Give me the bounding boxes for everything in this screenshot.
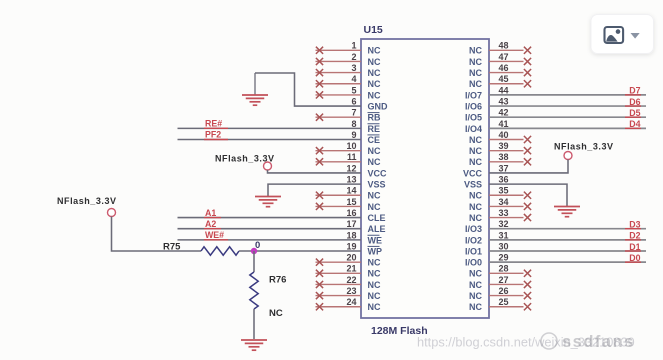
svg-text:19: 19 [346, 241, 356, 251]
svg-text:PF2: PF2 [205, 130, 221, 140]
svg-text:36: 36 [499, 175, 509, 185]
pin 41 (I/O4) right stub [465, 119, 509, 134]
svg-text:NC: NC [368, 79, 381, 89]
svg-text:GND: GND [368, 101, 389, 111]
pin 44 (I/O7) right stub [465, 85, 509, 100]
svg-text:NC: NC [469, 146, 482, 156]
value NC (R76) [269, 308, 283, 319]
wire NFlash_3.3V down to R75 [112, 217, 202, 252]
wire R75 to pin 19 (WP) [239, 250, 361, 252]
svg-text:NC: NC [368, 280, 381, 290]
svg-text:NC: NC [368, 46, 381, 56]
net label D6 [625, 97, 641, 107]
pin 39 (NC) right stub [469, 141, 531, 156]
svg-text:41: 41 [499, 119, 509, 129]
svg-text:NFlash_3.3V: NFlash_3.3V [57, 196, 117, 206]
pin 25 (NC) right stub [469, 297, 531, 312]
pin 13 (VSS) left stub [346, 175, 385, 190]
svg-text:16: 16 [346, 208, 356, 218]
svg-text:NC: NC [368, 258, 381, 268]
pin 17 (ALE) left stub [346, 219, 385, 234]
net label D0 [625, 253, 641, 263]
wire D6 (pin 43 to right edge) [489, 105, 646, 107]
svg-text:I/O3: I/O3 [465, 224, 482, 234]
svg-text:RE: RE [368, 124, 381, 134]
label R76 [269, 275, 286, 286]
pin 33 (NC) right stub [469, 208, 531, 223]
pin 24 (NC) left stub [316, 297, 381, 312]
pin 2 (NC) left stub [316, 52, 381, 67]
power port NFlash_3.3V (left) [57, 196, 117, 217]
svg-text:U15: U15 [364, 24, 383, 36]
svg-text:NC: NC [368, 291, 381, 301]
svg-text:I/O5: I/O5 [465, 113, 482, 123]
net label PF2 [204, 130, 228, 140]
value label 128M Flash [371, 325, 428, 337]
svg-text:NC: NC [469, 291, 482, 301]
svg-text:9: 9 [351, 130, 356, 140]
svg-text:39: 39 [499, 141, 509, 151]
pin 38 (NC) right stub [469, 152, 531, 167]
pin 34 (NC) right stub [469, 197, 531, 212]
svg-text:NC: NC [368, 269, 381, 279]
wire D1 (pin 30 to right edge) [489, 250, 646, 252]
pin 21 (NC) left stub [316, 264, 381, 279]
svg-text:NC: NC [469, 157, 482, 167]
svg-text:RB: RB [368, 113, 381, 123]
wire PF2 to pin 9 [178, 139, 362, 141]
watermark URL text [417, 335, 635, 350]
svg-text:NC: NC [368, 191, 381, 201]
wire NFlash_3.3V to pin 37 (VCC) [489, 160, 568, 173]
svg-text:3: 3 [351, 63, 356, 73]
net label D7 [625, 86, 641, 96]
svg-text:I/O6: I/O6 [465, 101, 482, 111]
wire junction down to R76 [253, 251, 255, 272]
pin 42 (I/O5) right stub [465, 108, 509, 123]
wire NFlash_3.3V to pin 12 (VCC) [268, 170, 362, 173]
wire D7 (pin 44 to right edge) [489, 94, 646, 96]
wire WE# to pin 18 [178, 239, 362, 241]
pin 22 (NC) left stub [316, 275, 381, 290]
svg-text:NC: NC [469, 68, 482, 78]
pin 8 (RE) left stub [351, 119, 380, 134]
svg-text:NC: NC [469, 302, 482, 312]
pin 7 (RB) left stub [316, 108, 381, 123]
svg-text:NC: NC [269, 308, 283, 319]
pin 35 (NC) right stub [469, 186, 531, 201]
svg-text:13: 13 [346, 175, 356, 185]
svg-text:6: 6 [351, 96, 356, 106]
wire D5 (pin 42 to right edge) [489, 116, 646, 118]
svg-text:34: 34 [499, 197, 509, 207]
svg-text:NC: NC [368, 90, 381, 100]
svg-text:A1: A1 [205, 208, 216, 218]
svg-text:ssdfans: ssdfans [562, 333, 635, 351]
svg-text:NC: NC [469, 213, 482, 223]
pin 37 (VCC) right stub [463, 163, 509, 178]
svg-text:37: 37 [499, 163, 509, 173]
label R75 [163, 242, 181, 253]
value 0 (R75) [255, 240, 260, 251]
svg-text:11: 11 [347, 152, 357, 162]
svg-text:10: 10 [346, 141, 356, 151]
pin 47 (NC) right stub [469, 52, 531, 67]
pin 45 (NC) right stub [469, 74, 531, 89]
svg-text:NC: NC [469, 202, 482, 212]
wire D4 (pin 41 to right edge) [489, 127, 646, 129]
svg-text:8: 8 [351, 119, 356, 129]
pin 23 (NC) left stub [316, 286, 381, 301]
pin 29 (I/O0) right stub [465, 253, 509, 268]
net label D5 [625, 108, 641, 118]
svg-text:D2: D2 [629, 231, 640, 241]
svg-text:NC: NC [368, 202, 381, 212]
svg-text:32: 32 [499, 219, 509, 229]
pin 18 (WE) left stub [346, 230, 382, 245]
pin 20 (NC) left stub [316, 253, 381, 268]
svg-text:RE#: RE# [205, 119, 222, 129]
svg-text:I/O2: I/O2 [465, 235, 482, 245]
svg-text:ALE: ALE [368, 224, 386, 234]
ground symbol (right, pin 36) [554, 207, 580, 217]
svg-text:WE#: WE# [205, 230, 224, 240]
pin 3 (NC) left stub [316, 63, 381, 78]
ground symbol (middle, pin 13) [255, 197, 281, 207]
net label D2 [625, 231, 641, 241]
power port NFlash_3.3V (right) [554, 142, 614, 160]
pin 30 (I/O1) right stub [465, 241, 509, 256]
IC U15 body (128M Flash) [361, 39, 489, 318]
pin 16 (CLE) left stub [346, 208, 385, 223]
svg-text:D4: D4 [629, 119, 640, 129]
junction node (magenta) [251, 248, 257, 254]
svg-text:VSS: VSS [464, 180, 482, 190]
pin 9 (CE) left stub [351, 130, 380, 145]
wire D0 (pin 29 to right edge) [489, 261, 646, 263]
wire pin 13 (VSS) to ground [268, 184, 361, 196]
svg-text:NC: NC [469, 46, 482, 56]
pin 31 (I/O2) right stub [465, 230, 509, 245]
net label A1 [204, 208, 221, 218]
svg-text:17: 17 [346, 219, 356, 229]
wire R76 to ground [253, 309, 255, 339]
svg-text:A2: A2 [205, 219, 216, 229]
ground symbol (top, pin 6) [242, 73, 268, 105]
svg-text:31: 31 [499, 230, 509, 240]
svg-text:25: 25 [499, 297, 509, 307]
resistor R76 [250, 272, 258, 309]
svg-text:NC: NC [469, 280, 482, 290]
svg-text:7: 7 [351, 108, 356, 118]
svg-text:30: 30 [499, 241, 509, 251]
pin 10 (NC) left stub [316, 141, 381, 156]
wire A2 to pin 17 [178, 228, 362, 230]
svg-text:26: 26 [499, 286, 509, 296]
net label A2 [204, 219, 221, 229]
svg-text:R76: R76 [269, 275, 286, 286]
svg-text:CE: CE [368, 135, 381, 145]
svg-text:I/O7: I/O7 [465, 90, 482, 100]
svg-text:21: 21 [346, 264, 356, 274]
svg-text:NC: NC [368, 302, 381, 312]
svg-text:NC: NC [368, 57, 381, 67]
svg-text:42: 42 [499, 108, 509, 118]
designator U15 [364, 24, 383, 36]
svg-text:48: 48 [499, 41, 509, 51]
power port NFlash_3.3V (middle) [215, 154, 275, 171]
svg-text:18: 18 [346, 230, 356, 240]
wire ground to pin 6 (GND) [255, 73, 361, 106]
svg-text:1: 1 [351, 41, 356, 51]
svg-text:I/O4: I/O4 [465, 124, 482, 134]
svg-text:33: 33 [499, 208, 509, 218]
svg-text:NC: NC [368, 68, 381, 78]
svg-text:NC: NC [469, 135, 482, 145]
svg-text:5: 5 [351, 85, 356, 95]
net label WE# [204, 230, 228, 240]
wire RE# to pin 8 [178, 127, 362, 129]
svg-text:D7: D7 [629, 86, 640, 96]
net label D1 [625, 242, 641, 252]
svg-text:23: 23 [346, 286, 356, 296]
wire D2 (pin 31 to right edge) [489, 239, 646, 241]
pin 6 (GND) left stub [351, 96, 388, 111]
pin 43 (I/O6) right stub [465, 96, 509, 111]
wire A1 to pin 16 [178, 217, 362, 219]
svg-text:CLE: CLE [368, 213, 386, 223]
watermark ssdfans overlay [541, 333, 635, 351]
svg-text:22: 22 [346, 275, 356, 285]
svg-text:NC: NC [469, 57, 482, 67]
svg-text:40: 40 [499, 130, 509, 140]
svg-text:47: 47 [499, 52, 509, 62]
svg-text:20: 20 [346, 253, 356, 263]
pin 40 (NC) right stub [469, 130, 531, 145]
svg-text:NC: NC [469, 79, 482, 89]
net label RE# [204, 119, 228, 129]
svg-text:15: 15 [346, 197, 356, 207]
svg-text:2: 2 [351, 52, 356, 62]
pin 27 (NC) right stub [469, 275, 531, 290]
resistor R75 [201, 247, 239, 255]
pin 36 (VSS) right stub [464, 175, 509, 190]
svg-text:44: 44 [499, 85, 509, 95]
svg-text:R75: R75 [163, 242, 181, 253]
pin 4 (NC) left stub [316, 74, 381, 89]
pin 19 (WP) left stub [346, 241, 382, 256]
svg-text:NC: NC [368, 157, 381, 167]
svg-text:43: 43 [499, 96, 509, 106]
pin 48 (NC) right stub [469, 41, 531, 56]
svg-text:VSS: VSS [368, 180, 386, 190]
svg-text:4: 4 [351, 74, 356, 84]
svg-text:I/O1: I/O1 [465, 246, 482, 256]
svg-text:I/O0: I/O0 [465, 258, 482, 268]
pin 11 (NC) left stub [316, 152, 381, 167]
svg-text:NFlash_3.3V: NFlash_3.3V [554, 142, 614, 152]
svg-text:46: 46 [499, 63, 509, 73]
svg-text:VCC: VCC [368, 168, 388, 178]
wire D3 (pin 32 to right edge) [489, 228, 646, 230]
svg-text:D6: D6 [629, 97, 640, 107]
ground symbol (bottom, R76) [241, 340, 267, 350]
pin 15 (NC) left stub [316, 197, 381, 212]
pin 14 (NC) left stub [316, 186, 381, 201]
pin 46 (NC) right stub [469, 63, 531, 78]
pin 32 (I/O3) right stub [465, 219, 509, 234]
net label D4 [625, 119, 641, 129]
svg-text:12: 12 [346, 163, 356, 173]
svg-text:29: 29 [499, 253, 509, 263]
svg-text:NC: NC [469, 269, 482, 279]
UI image-preview button (top right) [591, 15, 654, 54]
svg-text:35: 35 [499, 186, 509, 196]
svg-text:WP: WP [368, 246, 383, 256]
pin 1 (NC) left stub [316, 41, 381, 56]
pin 5 (NC) left stub [316, 85, 381, 100]
wire pin 36 (VSS) to ground [489, 184, 567, 206]
pin 26 (NC) right stub [469, 286, 531, 301]
net label D3 [625, 220, 641, 230]
svg-text:14: 14 [346, 186, 356, 196]
svg-text:NC: NC [469, 191, 482, 201]
svg-text:VCC: VCC [463, 168, 483, 178]
svg-text:27: 27 [499, 275, 509, 285]
pin 12 (VCC) left stub [346, 163, 387, 178]
svg-text:24: 24 [346, 297, 356, 307]
svg-text:NC: NC [368, 146, 381, 156]
svg-text:WE: WE [368, 235, 383, 245]
svg-text:38: 38 [499, 152, 509, 162]
svg-text:28: 28 [499, 264, 509, 274]
svg-text:45: 45 [499, 74, 509, 84]
pin 28 (NC) right stub [469, 264, 531, 279]
